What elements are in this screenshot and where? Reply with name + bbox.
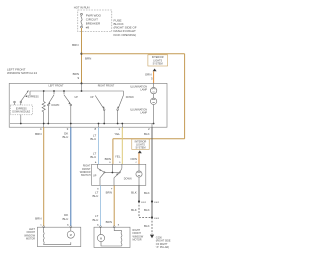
wire BRN vertical from breaker to switch [81,28,83,83]
node BRN entry [81,82,83,84]
svg-text:BRN: BRN [106,220,112,224]
svg-text:S302: S302 [154,202,160,204]
wire BRN horizontal to right edge [82,53,185,55]
right front window switch box [92,164,146,185]
express down module dashed box [10,105,32,115]
master switch box [9,83,167,127]
svg-text:BLU: BLU [90,155,96,159]
svg-text:S202: S202 [141,202,147,204]
svg-text:BLU: BLU [62,217,68,221]
circuit breaker CB (pwr wdo) [81,13,83,28]
svg-text:SYSTEM: SYSTEM [153,62,163,65]
express switch arm [14,91,29,106]
svg-text:UP: UP [93,174,97,177]
svg-text:RIGHT FRONT: RIGHT FRONT [98,85,115,88]
svg-text:DOWN: DOWN [126,96,134,99]
svg-text:BLK: BLK [144,191,150,195]
node resistor top [43,90,45,92]
svg-text:MOTOR: MOTOR [133,239,142,242]
svg-text:BLU: BLU [92,194,98,198]
svg-text:M: M [70,234,72,237]
wire BLK dashed to ground [151,218,153,235]
svg-text:BRN: BRN [85,56,91,60]
svg-text:MOTOR: MOTOR [26,238,35,241]
svg-text:S303: S303 [154,218,160,220]
wire ORN into switch pin 5 [153,71,155,83]
right motor M [97,228,104,242]
node splice on BRN [80,53,82,55]
ground G200 [150,235,154,239]
wire internal feed drop [81,83,83,91]
left front window motor box [37,227,80,246]
left front UP switch arm [64,91,72,124]
wire BLK dashed jog [139,202,152,218]
svg-text:BLU: BLU [62,135,68,139]
fuse block dashed box [78,10,112,32]
wire express to ground bus [20,115,22,124]
right switch contact bar [105,164,120,172]
wire LT BLU to right motor [100,185,102,226]
svg-text:SYSTEM: SYSTEM [135,147,145,150]
svg-text:EXPRESS: EXPRESS [28,96,39,98]
node bus dots [20,123,22,125]
wire BRN to right motor [113,185,115,226]
wire BLK from right switch lamp [138,185,140,201]
svg-text:YEL: YEL [115,155,121,159]
svg-text:BLK: BLK [131,191,137,195]
node S303 merge [151,216,153,218]
svg-text:DOWN MODULE: DOWN MODULE [12,112,30,114]
flag INTERIOR LIGHTS SYSTEM (top right) [148,55,168,66]
wire lamp to pin 2 [151,124,153,128]
right front DOWN switch arm [117,96,124,128]
svg-text:ORN: ORN [130,157,137,161]
svg-text:BRN: BRN [35,132,41,136]
internal ground bus [10,123,154,125]
left motor M [67,228,74,238]
svg-text:BLK: BLK [131,208,137,212]
triangle flag arrow [153,69,157,72]
svg-text:DOWN: DOWN [52,104,60,107]
node bus-feed [81,90,83,92]
label EXPRESS with arrow [25,95,27,97]
svg-text:BLK: BLK [144,132,150,136]
svg-text:BLK: BLK [144,208,150,212]
right switch UP arm [98,164,105,185]
svg-text:BRN: BRN [35,217,41,221]
svg-text:"A" PILLAR): "A" PILLAR) [156,246,169,249]
left motor internal breaker [43,228,71,245]
left front DOWN switch arm [44,91,71,127]
svg-text:BLU: BLU [90,137,96,141]
svg-text:LAMP: LAMP [140,89,147,92]
illumination lamp 1 [150,83,156,98]
svg-text:DOWN: DOWN [124,177,132,180]
wire ORN into right switch [138,153,140,164]
svg-text:KICK OPENING): KICK OPENING) [114,33,137,37]
svg-text:UP: UP [90,96,94,99]
triangle flag arrow [138,150,142,153]
right motor internal breaker [101,228,122,246]
illumination lamp 2 [150,98,156,123]
svg-text:M: M [100,238,102,241]
right switch DOWN arm [114,164,122,185]
node S202 [138,200,140,202]
wire BRN horizontal into right switch [113,138,185,140]
right switch illumination lamp [136,164,142,185]
node S302 [151,200,153,202]
svg-text:BRN: BRN [105,157,111,161]
pin circles [43,226,45,228]
svg-text:HOT IN RUN: HOT IN RUN [74,5,90,9]
right front window motor box [94,227,130,247]
svg-text:SWITCH: SWITCH [81,174,91,177]
svg-text:LAMP: LAMP [140,112,147,115]
flag INTERIOR LIGHTS SYSTEM (middle) [132,139,149,149]
svg-text:EXPRESS: EXPRESS [16,108,27,110]
svg-text:LEFT FRONT: LEFT FRONT [49,85,64,88]
svg-text:UP: UP [75,96,79,99]
svg-text:BRN: BRN [106,191,112,195]
internal top bus [30,91,123,96]
svg-text:BLK: BLK [144,224,150,228]
wire BRN right edge vertical [184,54,186,139]
svg-text:WINDOW SWITCH 24: WINDOW SWITCH 24 [7,71,37,75]
svg-text:BLU: BLU [92,218,98,222]
resistor (illumination dimming) [42,91,45,124]
right front UP switch arm [95,96,105,128]
svg-text:YEL: YEL [114,132,120,136]
svg-text:BRN: BRN [72,43,78,47]
svg-text:#8: #8 [86,25,90,29]
pin circles [100,226,102,228]
